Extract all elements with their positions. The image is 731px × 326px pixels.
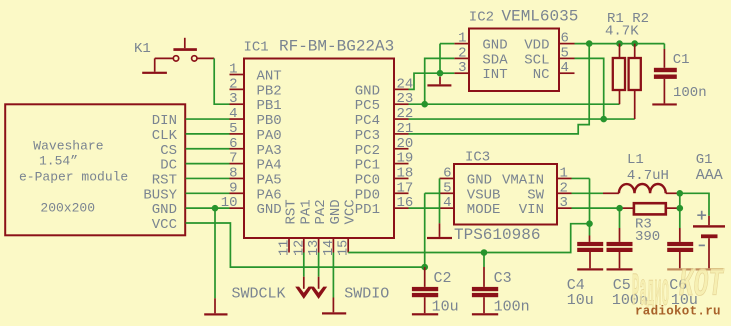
svg-text:PA3: PA3 — [257, 143, 282, 159]
svg-text:13: 13 — [307, 240, 322, 256]
svg-text:1.54”: 1.54” — [39, 154, 78, 169]
svg-text:12: 12 — [292, 240, 307, 256]
svg-text:C2: C2 — [434, 270, 452, 287]
svg-text:6: 6 — [443, 165, 451, 181]
svg-text:RF-BM-BG22A3: RF-BM-BG22A3 — [279, 38, 394, 56]
svg-text:1: 1 — [458, 31, 466, 47]
svg-text:Waveshare: Waveshare — [33, 139, 103, 154]
svg-text:L1: L1 — [627, 152, 644, 168]
svg-text:VMAIN: VMAIN — [502, 172, 544, 188]
svg-text:SDA: SDA — [482, 52, 508, 68]
svg-text:PC3: PC3 — [355, 128, 380, 144]
svg-text:1: 1 — [560, 165, 568, 181]
svg-text:5: 5 — [443, 180, 451, 196]
svg-text:VEML6035: VEML6035 — [502, 8, 579, 26]
svg-text:10u: 10u — [432, 299, 459, 316]
svg-text:IC3: IC3 — [465, 149, 490, 165]
svg-text:2: 2 — [229, 76, 237, 92]
svg-text:NC: NC — [533, 67, 550, 83]
svg-text:3: 3 — [229, 91, 237, 107]
svg-text:8: 8 — [229, 165, 237, 181]
svg-text:11: 11 — [278, 240, 293, 256]
svg-text:TPS610986: TPS610986 — [454, 226, 540, 244]
svg-text:IC2: IC2 — [469, 10, 494, 26]
svg-text:VCC: VCC — [152, 217, 177, 233]
svg-text:CLK: CLK — [152, 128, 178, 144]
svg-text:e-Paper module: e-Paper module — [19, 170, 128, 185]
svg-text:4: 4 — [229, 106, 237, 122]
svg-text:PC4: PC4 — [355, 113, 380, 129]
svg-text:GND: GND — [257, 202, 282, 218]
svg-text:1: 1 — [229, 62, 237, 78]
svg-text:100n: 100n — [673, 85, 707, 101]
svg-text:10u: 10u — [567, 292, 594, 309]
svg-text:3: 3 — [560, 195, 568, 211]
svg-text:15: 15 — [337, 240, 352, 256]
svg-text:200x200: 200x200 — [40, 201, 95, 216]
svg-text:PA0: PA0 — [257, 128, 282, 144]
svg-text:GND: GND — [328, 199, 344, 224]
svg-text:18: 18 — [397, 165, 414, 181]
svg-text:SW: SW — [527, 187, 544, 203]
svg-text:PB0: PB0 — [257, 113, 282, 129]
svg-text:CS: CS — [160, 143, 177, 159]
svg-text:VIN: VIN — [519, 202, 544, 218]
svg-text:GND: GND — [467, 172, 492, 188]
svg-text:PB2: PB2 — [257, 83, 282, 99]
svg-text:7: 7 — [229, 151, 237, 167]
svg-text:PA1: PA1 — [298, 199, 314, 224]
svg-text:AAA: AAA — [696, 167, 723, 184]
svg-text:RST: RST — [152, 172, 177, 188]
svg-text:2: 2 — [560, 180, 568, 196]
svg-text:DIN: DIN — [152, 113, 177, 129]
svg-text:20: 20 — [397, 136, 414, 152]
svg-text:IC1: IC1 — [244, 40, 269, 56]
svg-text:PC1: PC1 — [355, 158, 380, 174]
svg-text:3: 3 — [458, 60, 466, 76]
svg-text:ANT: ANT — [257, 69, 282, 85]
svg-text:PA2: PA2 — [313, 199, 329, 224]
svg-text:19: 19 — [397, 151, 414, 167]
svg-text:SWDCLK: SWDCLK — [232, 286, 286, 303]
svg-text:VDD: VDD — [524, 38, 549, 54]
svg-text:BUSY: BUSY — [143, 187, 177, 203]
svg-text:КОТ: КОТ — [679, 263, 724, 308]
svg-text:2: 2 — [458, 45, 466, 61]
svg-text:390: 390 — [635, 229, 660, 245]
svg-text:17: 17 — [397, 180, 414, 196]
svg-text:INT: INT — [482, 67, 507, 83]
svg-text:SWDIO: SWDIO — [344, 286, 389, 303]
svg-text:14: 14 — [322, 240, 337, 256]
svg-text:C1: C1 — [673, 52, 690, 68]
svg-text:100n: 100n — [494, 299, 530, 316]
svg-text:4.7uH: 4.7uH — [627, 168, 669, 184]
svg-text:C3: C3 — [494, 270, 512, 287]
svg-text:PA6: PA6 — [257, 187, 282, 203]
svg-text:VSUB: VSUB — [467, 187, 501, 203]
svg-text:GND: GND — [355, 83, 380, 99]
svg-text:GND: GND — [482, 38, 507, 54]
svg-text:RST: RST — [284, 199, 300, 224]
svg-text:10: 10 — [221, 195, 238, 211]
svg-text:G1: G1 — [696, 152, 713, 168]
svg-text:DC: DC — [160, 158, 177, 174]
svg-text:GND: GND — [152, 202, 177, 218]
svg-text:4.7K: 4.7K — [605, 24, 639, 40]
svg-text:MODE: MODE — [467, 202, 501, 218]
svg-text:PA4: PA4 — [257, 158, 282, 174]
svg-text:PC2: PC2 — [355, 143, 380, 159]
svg-text:4: 4 — [561, 60, 569, 76]
svg-text:9: 9 — [229, 180, 237, 196]
svg-text:PC5: PC5 — [355, 98, 380, 114]
svg-text:5: 5 — [229, 121, 237, 137]
svg-text:PA5: PA5 — [257, 172, 282, 188]
svg-text:radiokot.ru: radiokot.ru — [635, 305, 721, 319]
svg-text:VCC: VCC — [343, 199, 359, 224]
svg-text:5: 5 — [561, 45, 569, 61]
svg-text:K1: K1 — [134, 41, 151, 57]
svg-text:PB1: PB1 — [257, 98, 282, 114]
svg-text:6: 6 — [561, 31, 569, 47]
svg-text:6: 6 — [229, 136, 237, 152]
svg-text:4: 4 — [443, 195, 451, 211]
svg-text:PC0: PC0 — [355, 172, 380, 188]
svg-text:SCL: SCL — [524, 52, 549, 68]
